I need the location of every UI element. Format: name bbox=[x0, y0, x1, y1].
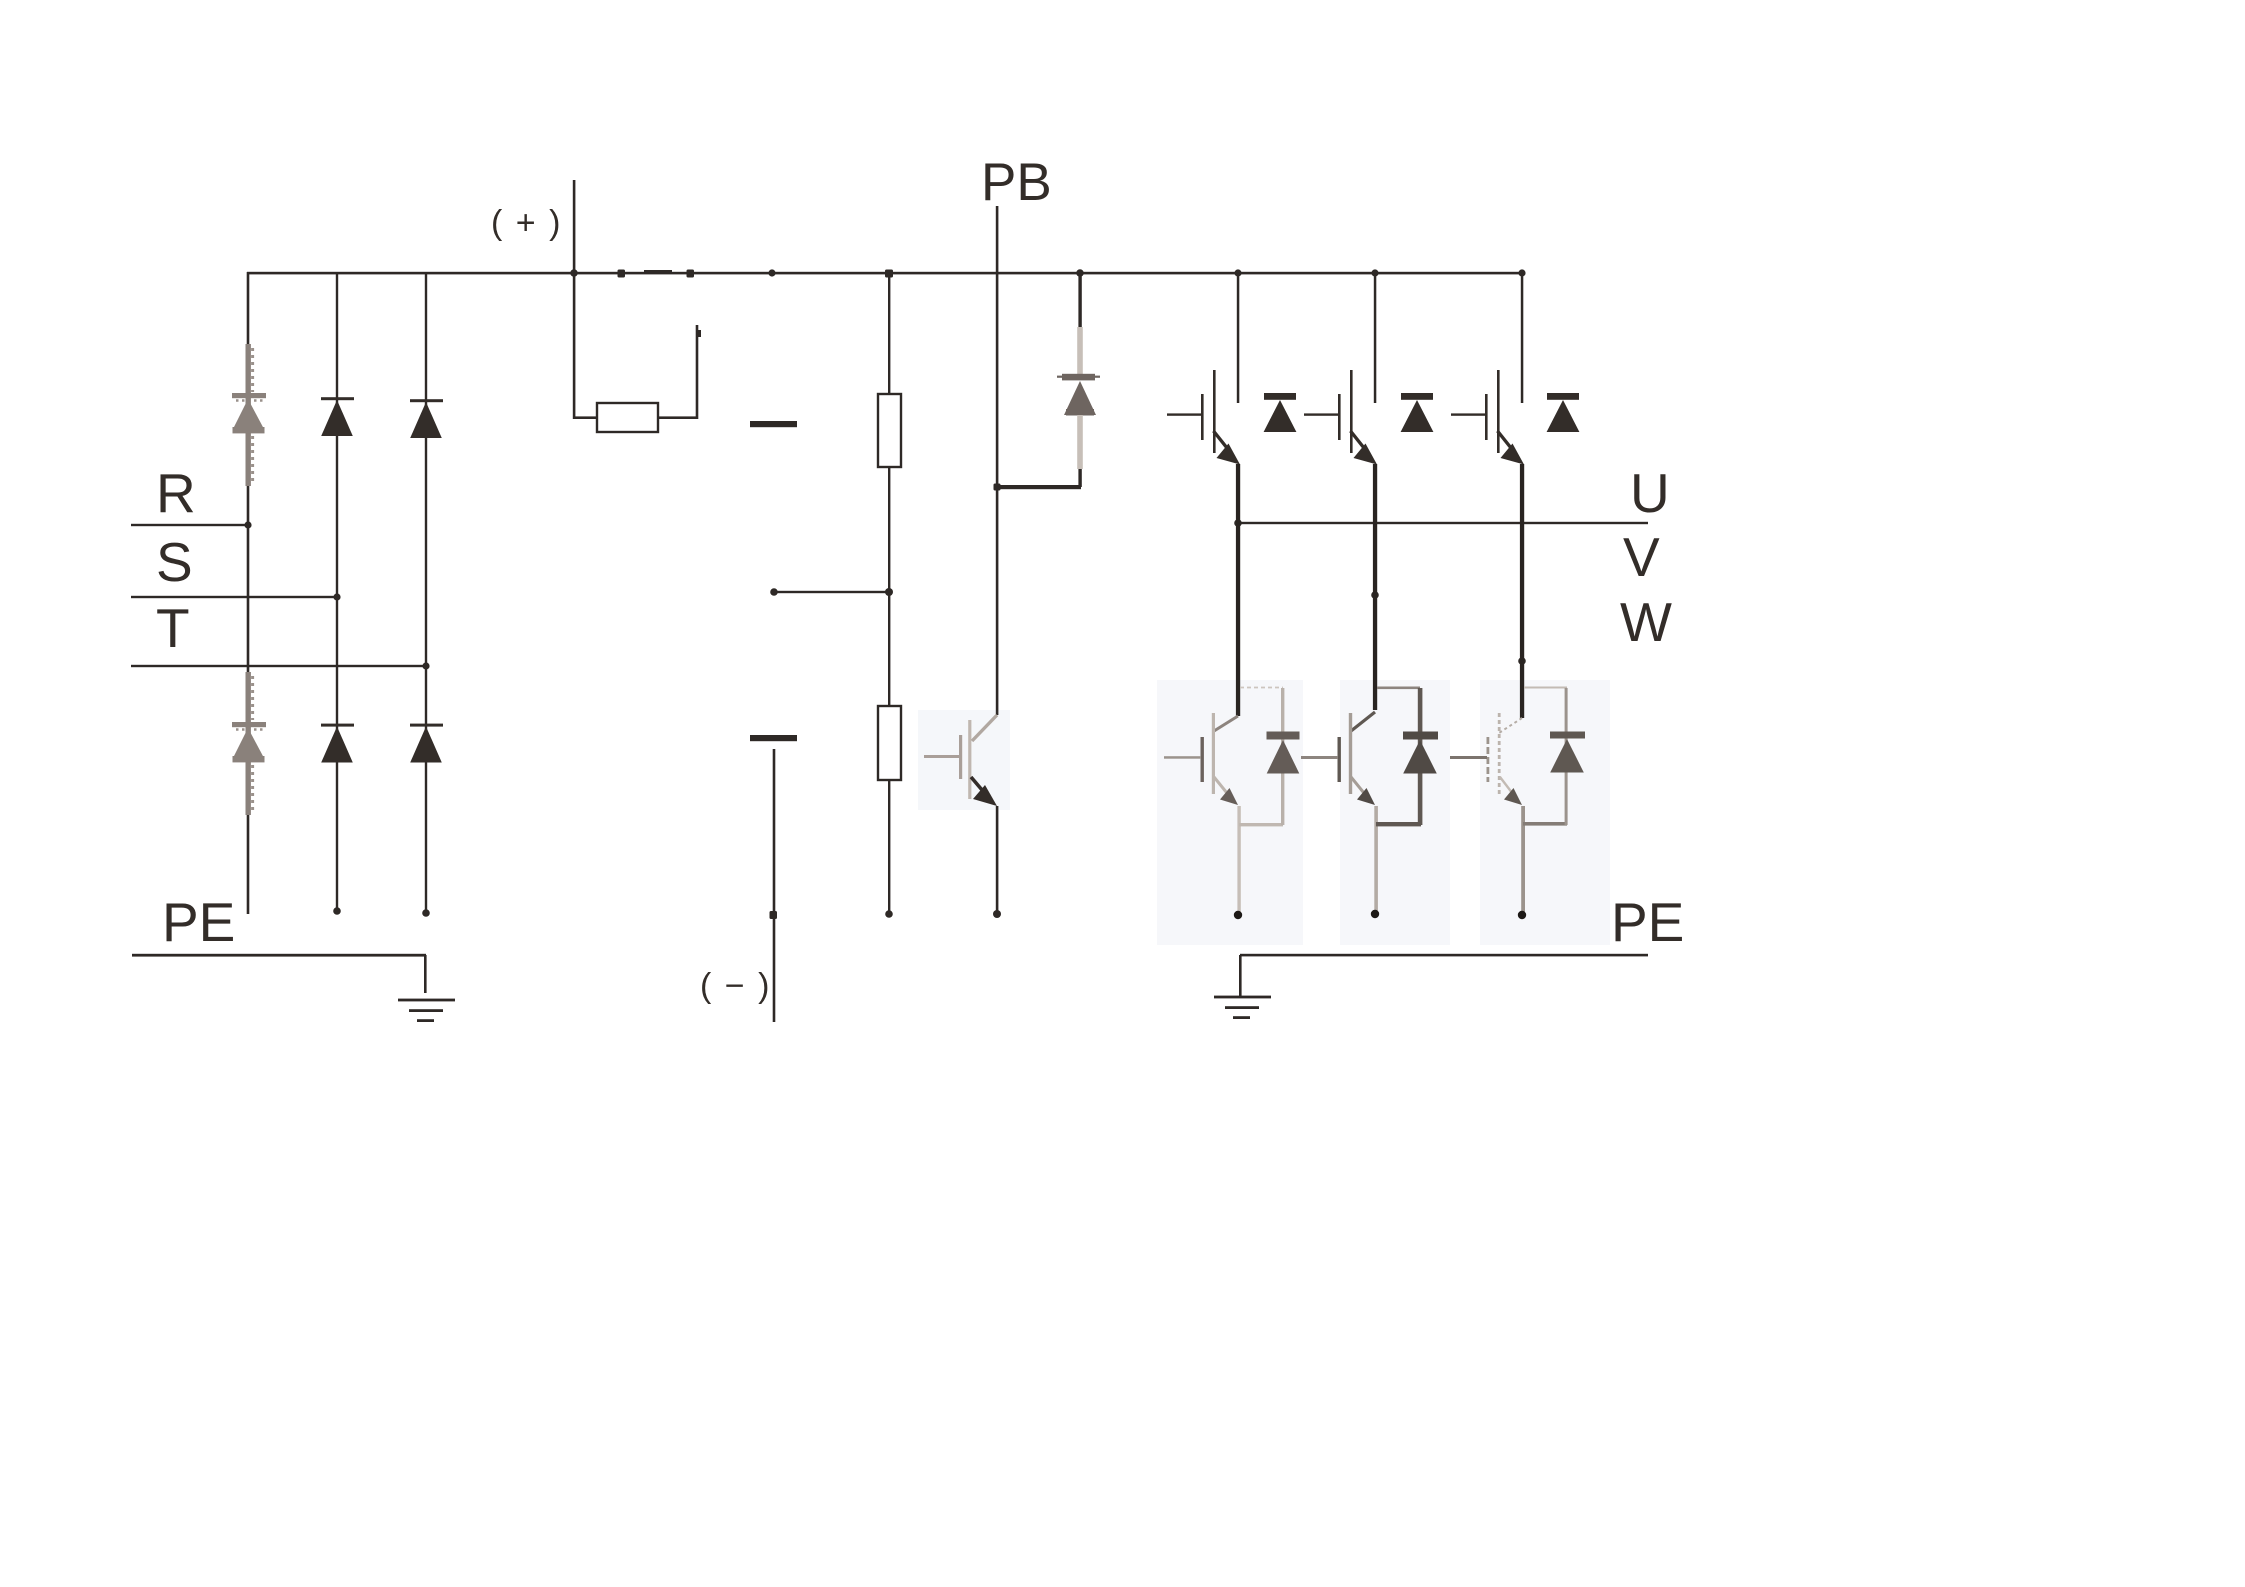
node: bus junction leg V bbox=[1371, 269, 1378, 276]
node: contact terminal right bbox=[687, 270, 695, 278]
capacitor C1 top plate bbox=[750, 421, 797, 427]
svg-text:( + ): ( + ) bbox=[491, 204, 562, 242]
wire: divider top lead bbox=[888, 273, 890, 394]
scan background patch (lower leg W) bbox=[1480, 680, 1610, 945]
scan background patch (lower leg V) bbox=[1340, 680, 1450, 945]
svg-text:R: R bbox=[156, 462, 196, 524]
capacitor C2 top plate bbox=[750, 735, 797, 741]
contact blade segment bbox=[644, 270, 672, 273]
transistor Q6 (inverter lower W, light gray) bbox=[1450, 687, 1567, 915]
label PE (left) bbox=[162, 891, 235, 953]
node: T junction bbox=[422, 662, 429, 669]
diode D7 (braking diode, gray) bbox=[1057, 273, 1100, 469]
node: W lower emitter end bbox=[1518, 911, 1526, 919]
label PB bbox=[981, 153, 1052, 212]
wire: U leg (emitter to lower collector) bbox=[1236, 464, 1240, 716]
ground (right PE) bbox=[1214, 955, 1271, 1019]
node: S junction bbox=[333, 593, 340, 600]
node: brake branch corner bbox=[994, 484, 1001, 491]
resistor R3 (divider lower) bbox=[878, 706, 901, 780]
node: bus junction leg U bbox=[1234, 269, 1241, 276]
node: bus junction at capacitor column bbox=[768, 269, 775, 276]
wire: R input line bbox=[131, 524, 248, 526]
label PE (right) bbox=[1611, 891, 1684, 953]
label V bbox=[1623, 526, 1660, 588]
node: U lower emitter end bbox=[1234, 911, 1242, 919]
transistor Q2 (inverter upper V) bbox=[1304, 273, 1377, 465]
node: R junction bbox=[244, 521, 251, 528]
svg-text:U: U bbox=[1630, 462, 1670, 524]
diode D5 (rectifier lower S-phase) bbox=[321, 724, 354, 763]
diode FD3 (freewheel upper W) bbox=[1547, 393, 1580, 432]
svg-text:V: V bbox=[1623, 526, 1660, 588]
scan background patch (brake IGBT) bbox=[918, 710, 1010, 810]
label S bbox=[156, 531, 193, 593]
wire: S-phase vertical leg bbox=[336, 272, 338, 911]
diode FD5 (freewheel lower V, dark gray) bbox=[1403, 688, 1438, 825]
label U bbox=[1630, 462, 1670, 524]
ground (left PE) bbox=[398, 955, 455, 1022]
node: bus junction at divider column bbox=[885, 270, 893, 278]
node: T leg bottom end bbox=[422, 909, 430, 917]
node: midpoint left end bbox=[770, 588, 778, 596]
diode FD4 (freewheel lower U, gray) bbox=[1267, 688, 1300, 825]
diode FD2 (freewheel upper V) bbox=[1401, 393, 1434, 432]
diode D6 (rectifier lower T-phase) bbox=[410, 724, 443, 763]
transistor Q1 (inverter upper U) bbox=[1167, 273, 1240, 465]
transistor Q7 (brake IGBT) bbox=[924, 715, 998, 914]
svg-text:S: S bbox=[156, 531, 193, 593]
diode D1 (rectifier upper R-phase, gray) bbox=[232, 344, 266, 486]
svg-text:PB: PB bbox=[981, 153, 1052, 212]
wire: DC+ riser bbox=[573, 180, 576, 274]
svg-text:( − ): ( − ) bbox=[700, 967, 771, 1005]
label (+) bbox=[491, 204, 562, 242]
node: U junction bbox=[1234, 519, 1242, 527]
resistor R1 (charging resistor) bbox=[597, 403, 658, 432]
wire: PE right line bbox=[1240, 954, 1648, 957]
svg-text:T: T bbox=[156, 597, 190, 659]
wire: divider middle lead bbox=[888, 467, 890, 706]
diode D4 (rectifier lower R-phase, gray) bbox=[232, 672, 266, 815]
wire: S input line bbox=[131, 596, 337, 598]
wire: PB vertical line bbox=[996, 206, 999, 715]
diode D2 (rectifier upper S-phase) bbox=[321, 397, 354, 436]
label T bbox=[156, 597, 190, 659]
transistor Q5 (inverter lower V, dark gray) bbox=[1301, 687, 1421, 915]
diode FD1 (freewheel upper U) bbox=[1264, 393, 1297, 432]
label (-) bbox=[700, 967, 771, 1005]
wire: V leg bbox=[1373, 464, 1377, 710]
svg-text:PE: PE bbox=[1611, 891, 1684, 953]
node: bus junction at riser bbox=[570, 269, 578, 277]
label W bbox=[1620, 591, 1672, 653]
transistor Q4 (inverter lower U, gray) bbox=[1164, 688, 1283, 915]
node: bus junction leg W (bus end) bbox=[1518, 269, 1525, 276]
node: W junction bbox=[1518, 657, 1526, 665]
node: DC- dot bbox=[770, 911, 778, 919]
wire: charging resistor left lead bbox=[573, 273, 597, 419]
wire: DC- drop bbox=[773, 749, 776, 1022]
wire: PE left line bbox=[132, 954, 426, 957]
wire: charging resistor right lead bbox=[658, 325, 701, 419]
node: brake emitter end bbox=[993, 910, 1001, 918]
node: S leg bottom end bbox=[333, 907, 341, 915]
transistor Q3 (inverter upper W) bbox=[1451, 273, 1524, 465]
node: divider midpoint bbox=[885, 588, 893, 596]
wire: R-phase vertical leg bbox=[247, 272, 250, 914]
node: divider bottom end bbox=[885, 910, 893, 918]
diode D3 (rectifier upper T-phase) bbox=[410, 399, 443, 438]
node: contact terminal left bbox=[618, 270, 626, 278]
node: bus junction at brake diode bbox=[1076, 269, 1084, 277]
wire: U output line bbox=[1237, 522, 1648, 524]
wire: divider bottom lead bbox=[888, 780, 890, 914]
svg-text:PE: PE bbox=[162, 891, 235, 953]
node: V lower emitter end bbox=[1371, 910, 1379, 918]
wire: brake diode bottom link bbox=[997, 469, 1082, 489]
svg-text:W: W bbox=[1620, 591, 1672, 653]
wire: T-phase vertical leg bbox=[425, 272, 427, 913]
diode FD6 (freewheel lower W, gray) bbox=[1550, 688, 1585, 825]
wire: T input line bbox=[131, 665, 426, 667]
node: V junction bbox=[1371, 591, 1379, 599]
wire: capacitor midpoint link bbox=[774, 591, 889, 593]
scan background patch (lower leg U) bbox=[1157, 680, 1303, 945]
wire: DC+ bus bbox=[247, 272, 1523, 275]
label R bbox=[156, 462, 196, 524]
wire: W leg bbox=[1520, 464, 1524, 718]
resistor R2 (divider upper) bbox=[878, 394, 901, 467]
